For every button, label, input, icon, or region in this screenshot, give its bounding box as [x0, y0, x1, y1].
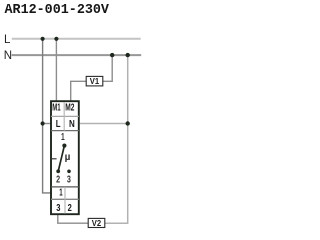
svg-text:V1: V1: [90, 76, 100, 86]
wire from N to V1: [103, 55, 112, 81]
device row line below L N: [51, 130, 79, 132]
device AR12 outline box: [51, 101, 79, 214]
svg-text:2: 2: [56, 174, 60, 185]
svg-text:M1: M1: [52, 103, 61, 114]
svg-text:1: 1: [59, 188, 63, 199]
junction dot on L line left: [41, 37, 45, 41]
svg-text:L: L: [4, 34, 11, 46]
divider L N cells: [63, 116, 65, 130]
svg-text:1: 1: [61, 132, 65, 143]
divider bottom terminals cells: [64, 199, 66, 213]
voltmeter V2 box: [88, 218, 105, 227]
device row line above terminal 1: [51, 186, 79, 188]
contact pole dot: [62, 144, 66, 148]
junction dot at L terminal branch: [41, 121, 45, 125]
wire from L to device left side: [43, 39, 51, 193]
junction dot on L line right: [54, 37, 58, 41]
switch arm: [58, 146, 64, 172]
svg-text:M2: M2: [65, 103, 74, 114]
switch actuator tick: [51, 158, 56, 160]
device row line below M1 M2: [51, 115, 79, 117]
contact 3 dot: [67, 170, 71, 174]
wire N line: [12, 54, 142, 56]
svg-text:3: 3: [56, 203, 61, 214]
voltmeter V1 box: [86, 76, 103, 86]
wire L line: [12, 38, 141, 40]
svg-text:V2: V2: [92, 218, 102, 228]
wire from V1 to M2 terminal: [71, 81, 87, 100]
svg-text:µ: µ: [65, 152, 71, 163]
divider M1 M2 cells: [63, 102, 65, 116]
device row line below terminal 1: [51, 198, 79, 200]
wire stub from junction to N terminal: [80, 123, 128, 125]
svg-text:AR12-001-230V: AR12-001-230V: [5, 3, 110, 18]
junction dot on N line right: [126, 53, 130, 57]
junction dot on N line left: [110, 53, 114, 57]
svg-text:L: L: [56, 119, 61, 130]
contact 2 dot: [56, 169, 60, 173]
svg-text:N: N: [4, 50, 12, 62]
wire from L to M1 terminal: [55, 39, 57, 101]
wire from N down right side to V2: [105, 55, 128, 223]
divider terminal 1 row cells: [64, 187, 66, 199]
wire from device bottom to V2: [58, 215, 88, 224]
svg-text:N: N: [69, 119, 75, 130]
junction dot at N terminal branch: [126, 121, 130, 125]
svg-text:3: 3: [67, 174, 71, 185]
svg-text:2: 2: [68, 203, 73, 214]
wire stub from junction to L terminal: [43, 123, 51, 125]
